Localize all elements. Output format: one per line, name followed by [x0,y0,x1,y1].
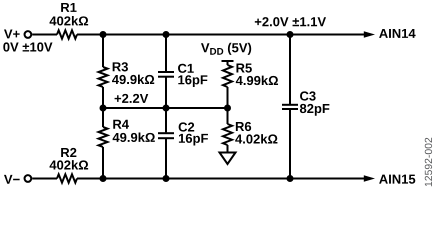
wire R3 to middle rail [102,87,104,108]
node AIN15 [379,175,415,184]
wire top rail to AIN14 arrow [77,34,365,36]
wire bottom rail to AIN15 arrow [77,178,365,180]
node V+ [4,29,20,38]
node junction bottom C3 [287,175,294,182]
terminal V- [25,175,32,182]
node V- [4,175,20,184]
ground [220,153,236,165]
value R4 49.9k [113,132,155,142]
node junction top C3 [287,31,294,38]
label R6 [236,122,251,131]
node junction bottom C2 [163,175,170,182]
wire bottom rail from V- terminal [32,178,57,180]
capacitor C2 [158,132,174,134]
resistor R4 [99,127,108,147]
value C3 82pF [300,104,329,116]
node junction mid C1/C2 [163,105,170,112]
terminal V+ [25,31,32,38]
resistor R6 [223,124,232,145]
wire middle rail to R4 [102,108,104,127]
label C2 [179,122,195,131]
node voltage 0V +/-10V [3,42,52,51]
capacitor C1 [158,71,174,73]
wire C1 branch from top rail [165,35,167,72]
node junction top C1 [163,31,170,38]
figure number 12592-002 [425,138,432,186]
label R3 [113,62,128,71]
node junction top R3 [100,31,107,38]
label R5 [236,64,251,73]
value R6 4.02k [235,134,277,144]
node junction mid R5/R6 [224,105,231,112]
wire R4 to bottom rail [102,147,104,179]
value C2 16pF [179,134,208,146]
node +2.2V [115,94,149,103]
wire top rail from V+ terminal [32,34,57,36]
node AIN14 [379,29,415,38]
wire middle rail to C2 [165,108,167,132]
label R2 [61,148,76,157]
value C1 16pF [178,75,207,87]
label C1 [178,64,194,73]
arrow AIN15 [364,175,375,182]
wire VDD bar to R5 [227,61,229,65]
wire C1 to middle rail [165,78,167,109]
label R1 [61,3,76,12]
resistor R2 [57,174,77,182]
label VDD (5V) [201,43,251,55]
arrow AIN14 [364,31,375,38]
capacitor C3 [282,104,298,106]
value R2 402k [50,160,89,170]
label C3 [300,91,316,100]
wire middle +2.2V rail [103,107,228,109]
node junction bottom R4 [100,175,107,182]
value R5 4.99k [236,76,278,86]
value R3 49.9k [112,75,154,85]
resistor R5 [223,65,232,87]
wire middle rail to R6 [227,108,229,124]
wire R6 to ground [227,145,229,153]
node voltage +2.0V +/-1.1V [255,17,326,26]
resistor R1 [57,30,77,38]
wire R5 to middle rail [227,87,229,108]
node junction mid R3/R4 [100,105,107,112]
wire C3 branch from top rail [289,35,291,105]
label R4 [113,120,129,129]
wire C3 to bottom rail [289,110,291,179]
resistor R3 [99,67,108,87]
value R1 402k [50,16,89,26]
wire C2 to bottom rail [165,139,167,179]
power VDD supply bar [222,60,234,62]
wire R3 branch from top rail [102,35,104,68]
